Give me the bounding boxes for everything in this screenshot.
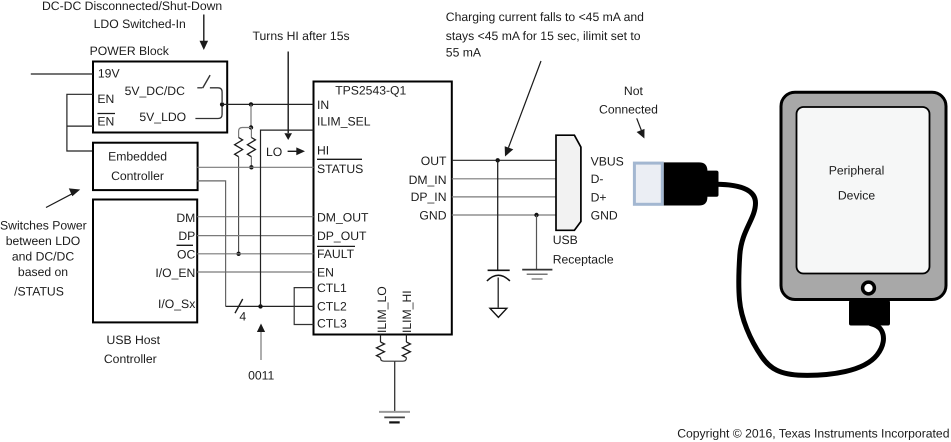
svg-text:D-: D- [591,172,604,186]
wire OUT [452,159,556,161]
svg-text:DM: DM [176,211,195,225]
label USB Host Controller [104,333,161,366]
wire pull-up drop [250,104,252,127]
wire R1 to OC line [238,157,240,254]
wire to resistor R1 [239,128,251,138]
wire cap to analog ground [497,278,499,308]
node E: bus junction [258,304,262,308]
annotation: Not Connected [599,84,658,117]
annotation: Switches Power note [0,218,87,298]
USB plug P1 body [664,162,708,205]
svg-text:STATUS: STATUS [317,162,363,176]
wire receptacle GND to earth [536,215,538,269]
annotation 0011 with arrow [248,324,274,383]
wire I/O_Sx bus [226,305,314,307]
wire 5V_LDO contact [195,107,222,119]
wire bus to ILIM_SEL [261,130,314,306]
svg-text:CTL2: CTL2 [317,299,347,313]
svg-text:HI: HI [317,144,329,158]
wire CTL bracket [294,288,313,325]
svg-text:CTL3: CTL3 [317,316,347,330]
wire DM [197,216,313,218]
svg-text:GND: GND [591,208,618,222]
resistor R3 ILIM_LO [377,342,385,358]
svg-text:Receptacle: Receptacle [553,253,614,267]
svg-text:/STATUS: /STATUS [14,284,64,298]
svg-text:stays <45 mA for 15 sec, ilimi: stays <45 mA for 15 sec, ilimit set to [446,29,641,43]
svg-text:based on: based on [18,265,68,279]
svg-text:DP_OUT: DP_OUT [317,229,367,243]
svg-text:Embedded: Embedded [108,150,167,164]
USB plug P1 metal shell [634,163,662,204]
tablet home button [863,282,875,294]
node D: STATUS line junction [249,165,253,169]
resistor R1 (STATUS pull-up... to FAULT line) [235,138,243,157]
svg-text:19V: 19V [98,67,121,81]
svg-text:Not: Not [624,84,644,98]
TPS2543-Q1 U1 [314,82,452,335]
svg-text:VBUS: VBUS [591,154,624,168]
svg-text:Controller: Controller [111,169,164,183]
earth ground (receptacle) [522,270,552,279]
svg-text:5V_DC/DC: 5V_DC/DC [125,84,185,98]
analog ground (open triangle) [490,308,507,317]
node C: OC line junction [236,252,240,256]
svg-text:ILIM_HI: ILIM_HI [400,290,414,333]
svg-text:and DC/DC: and DC/DC [12,249,75,263]
svg-text:Controller: Controller [104,352,157,366]
svg-text:between LDO: between LDO [6,234,81,248]
node B: resistor split junction [249,125,253,129]
svg-text:GND: GND [419,209,446,223]
svg-text:POWER Block: POWER Block [90,44,170,58]
svg-text:USB: USB [553,233,578,247]
capacitor C1 on OUT [487,160,510,281]
svg-text:Copyright © 2016, Texas Instru: Copyright © 2016, Texas Instruments Inco… [677,426,949,440]
svg-text:ILIM_SEL: ILIM_SEL [317,115,371,129]
svg-text:USB Host: USB Host [107,333,161,347]
wire to resistor R2 [250,128,252,138]
svg-text:I/O_Sx: I/O_Sx [158,297,195,311]
svg-text:Connected: Connected [599,103,658,117]
USB Host Controller U4 [93,200,197,323]
svg-text:EN: EN [97,92,114,106]
svg-text:Peripheral: Peripheral [829,163,885,177]
svg-text:DP_IN: DP_IN [411,190,447,204]
wire 19V input [31,73,93,75]
svg-text:Charging current falls to <45: Charging current falls to <45 mA and [446,10,644,24]
svg-text:ILIM_LO: ILIM_LO [375,286,389,333]
wire DP [197,235,313,237]
annotation: Turns HI after 15s [253,29,350,43]
wire IN (5V rail) [222,103,313,105]
node: switch output junction [220,102,224,106]
wire DP_IN [452,196,556,198]
svg-text:DP: DP [178,229,195,243]
svg-text:D+: D+ [591,190,607,204]
arrow to POWER Block [200,15,209,51]
resistor R2 (pull-up to STATUS line) [247,138,255,157]
wire EN enable bus from Embedded Controller [67,94,93,151]
svg-text:LO: LO [266,145,282,159]
annotation LO with arrow [266,145,305,159]
earth ground (ILIM resistors) [379,412,410,423]
svg-text:0011: 0011 [248,368,274,382]
node A: IN pull-up junction [249,102,253,106]
arrow to HI pin area [284,52,292,141]
svg-text:OC: OC [177,248,195,262]
svg-text:Turns HI after 15s: Turns HI after 15s [253,29,350,43]
label USB Receptacle [553,233,614,267]
wire GND [452,214,556,216]
pin label EN-bar [97,114,115,129]
wire STATUS [197,166,313,168]
wire ILIM_LO pin stub [380,335,382,343]
wire resistors to ground [381,358,407,412]
svg-text:55 mA: 55 mA [446,45,482,59]
svg-text:EN: EN [97,114,114,128]
svg-text:EN: EN [317,265,334,279]
wire OC to FAULT [197,253,313,255]
node F: OUT junction [496,158,500,162]
POWER Block U2 [93,62,227,133]
USB receptacle J1 [556,135,624,230]
annotation: DC-DC Disconnected label [42,0,222,31]
Embedded Controller U3 [93,143,198,190]
svg-text:DM_OUT: DM_OUT [317,210,369,224]
svg-text:Device: Device [838,189,875,203]
USB plug P1 strain relief [705,171,719,197]
wire Embedded Controller to I/O bus [197,181,225,307]
annotation: Charging current note [446,10,644,60]
node G: GND junction [534,213,538,217]
arrow from note to OUT node [505,61,541,157]
svg-text:4: 4 [239,309,246,323]
arrow to Embedded Controller [46,188,80,207]
arrow to plug shell [637,118,645,138]
svg-text:OUT: OUT [421,154,447,168]
cable W1 [716,184,883,375]
peripheral device (tablet) [781,92,946,299]
switch SW1 (open, DC/DC contact) [197,75,222,102]
wire R2 to STATUS line [250,157,252,168]
bus width slash /4 [235,299,246,323]
wire I/O_EN to EN [197,271,313,273]
svg-text:I/O_EN: I/O_EN [155,266,195,280]
svg-text:Switches Power: Switches Power [0,218,87,232]
svg-text:DM_IN: DM_IN [409,173,447,187]
resistor R4 ILIM_HI [402,342,410,358]
wire ILIM_HI pin stub [405,335,407,343]
tablet dock connector [849,300,890,325]
wire DM_IN [452,178,556,180]
svg-text:CTL1: CTL1 [317,281,347,295]
svg-text:5V_LDO: 5V_LDO [139,110,186,124]
svg-text:LDO Switched-In: LDO Switched-In [94,17,186,31]
svg-text:FAULT: FAULT [317,247,355,261]
svg-text:DC-DC Disconnected/Shut-Down: DC-DC Disconnected/Shut-Down [42,0,222,13]
svg-text:TPS2543-Q1: TPS2543-Q1 [335,84,406,98]
svg-text:IN: IN [317,98,329,112]
